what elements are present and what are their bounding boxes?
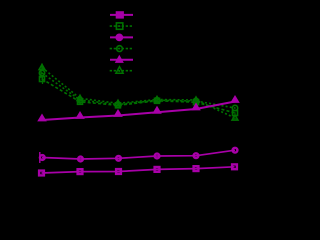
series: magenta solid line, open squares — [39, 164, 237, 175]
series: green dotted line, open triangles — [39, 65, 238, 121]
error bar cluster at first green point — [41, 64, 43, 85]
line chart on black background — [0, 0, 249, 224]
legend entry 2: green dashed, open square — [110, 23, 133, 29]
series: green dotted line, open circles — [39, 70, 237, 110]
series: magenta solid line, open circles — [40, 148, 238, 163]
legend entry 6: green dotted, open triangle — [110, 67, 133, 74]
legend entry 1: magenta solid, filled square — [110, 12, 133, 18]
legend entry 3: magenta solid, filled circle — [110, 34, 133, 41]
series: green dashed line, open squares — [40, 77, 238, 116]
series: magenta solid line, filled triangles — [39, 97, 238, 121]
legend entry 5: magenta solid, filled triangle — [110, 56, 133, 63]
legend entry 4: green dotted, open circle — [110, 46, 133, 52]
